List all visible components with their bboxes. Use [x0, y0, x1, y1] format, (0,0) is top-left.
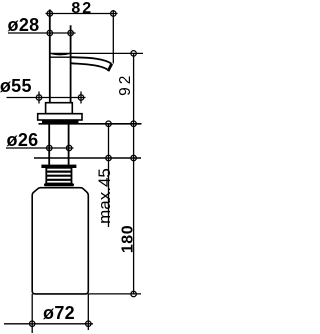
node 180 top: [131, 155, 137, 161]
node 82 right: [111, 11, 117, 17]
extension line diameter 72 right: [87, 294, 89, 330]
bottle outline: [32, 188, 88, 294]
node d72 right: [86, 321, 92, 327]
node d26 left: [47, 145, 53, 151]
node 180 bottom: [131, 291, 137, 297]
spout top edge: [71, 57, 112, 64]
cap thread line 1: [46, 171, 71, 173]
extension line diameter 72 left: [31, 294, 33, 333]
counter top line: [39, 123, 142, 125]
pump body pipe left edge (also extension line for 82): [49, 10, 51, 103]
shank left edge: [48, 123, 50, 165]
dimension line 82: [46, 13, 118, 15]
cap thread line 2: [46, 175, 71, 177]
node d55 left: [36, 95, 42, 101]
node d28 right: [68, 30, 74, 36]
cap thread line 3: [46, 179, 71, 181]
washer bar: [41, 165, 76, 168]
dimension node circles: [29, 11, 136, 327]
counter bottom line: [34, 157, 141, 159]
svg-text:180: 180: [119, 225, 136, 253]
transition piece below pipe: [46, 103, 73, 114]
pump body pipe right edge (also extension line for diameter 28): [70, 25, 72, 102]
shank right edge: [68, 123, 70, 165]
head seam arc across pipe: [50, 53, 71, 55]
node d28 left: [47, 30, 53, 36]
flange escutcheon: [38, 114, 82, 120]
dimension line diameter 72: [4, 323, 93, 325]
svg-text:ø55: ø55: [0, 76, 32, 96]
svg-text:ø72: ø72: [43, 303, 75, 323]
svg-text:92: 92: [117, 73, 134, 96]
extension line diameter 55 left: [38, 92, 40, 104]
spout joint seam: [50, 56, 71, 58]
node 92 bottom / counter top: [131, 121, 137, 127]
extension line diameter 55 right: [80, 92, 82, 104]
dimension line max.45: [108, 124, 110, 227]
spout outlet tip face: [108, 64, 112, 71]
node max45 bottom: [106, 155, 112, 161]
dimension line diameter 26: [6, 147, 74, 149]
node max45 top: [106, 121, 112, 127]
node d72 left: [29, 321, 35, 327]
spout bottom edge: [71, 63, 108, 69]
svg-text:ø26: ø26: [7, 130, 39, 150]
bottle cap body: [46, 168, 71, 184]
svg-text:max.45: max.45: [95, 168, 114, 224]
node d55 right: [78, 95, 84, 101]
extension line 92 top (long horizontal at spout level): [50, 52, 143, 54]
cap base collar (filled): [44, 183, 74, 186]
extension line 82 right (to spout tip): [112, 10, 114, 64]
node 82 left: [47, 11, 53, 17]
svg-text:ø28: ø28: [8, 15, 40, 35]
gasket (filled black): [42, 120, 79, 124]
node d26 right: [66, 145, 72, 151]
dimension line 92 / 180 (common vertical): [133, 53, 135, 294]
dimension line diameter 28: [8, 32, 76, 34]
node 92 top: [131, 51, 137, 57]
dimension line diameter 55: [7, 97, 86, 99]
bottle bottom extension line to 180 dimension: [88, 293, 141, 295]
svg-text:82: 82: [71, 0, 93, 17]
